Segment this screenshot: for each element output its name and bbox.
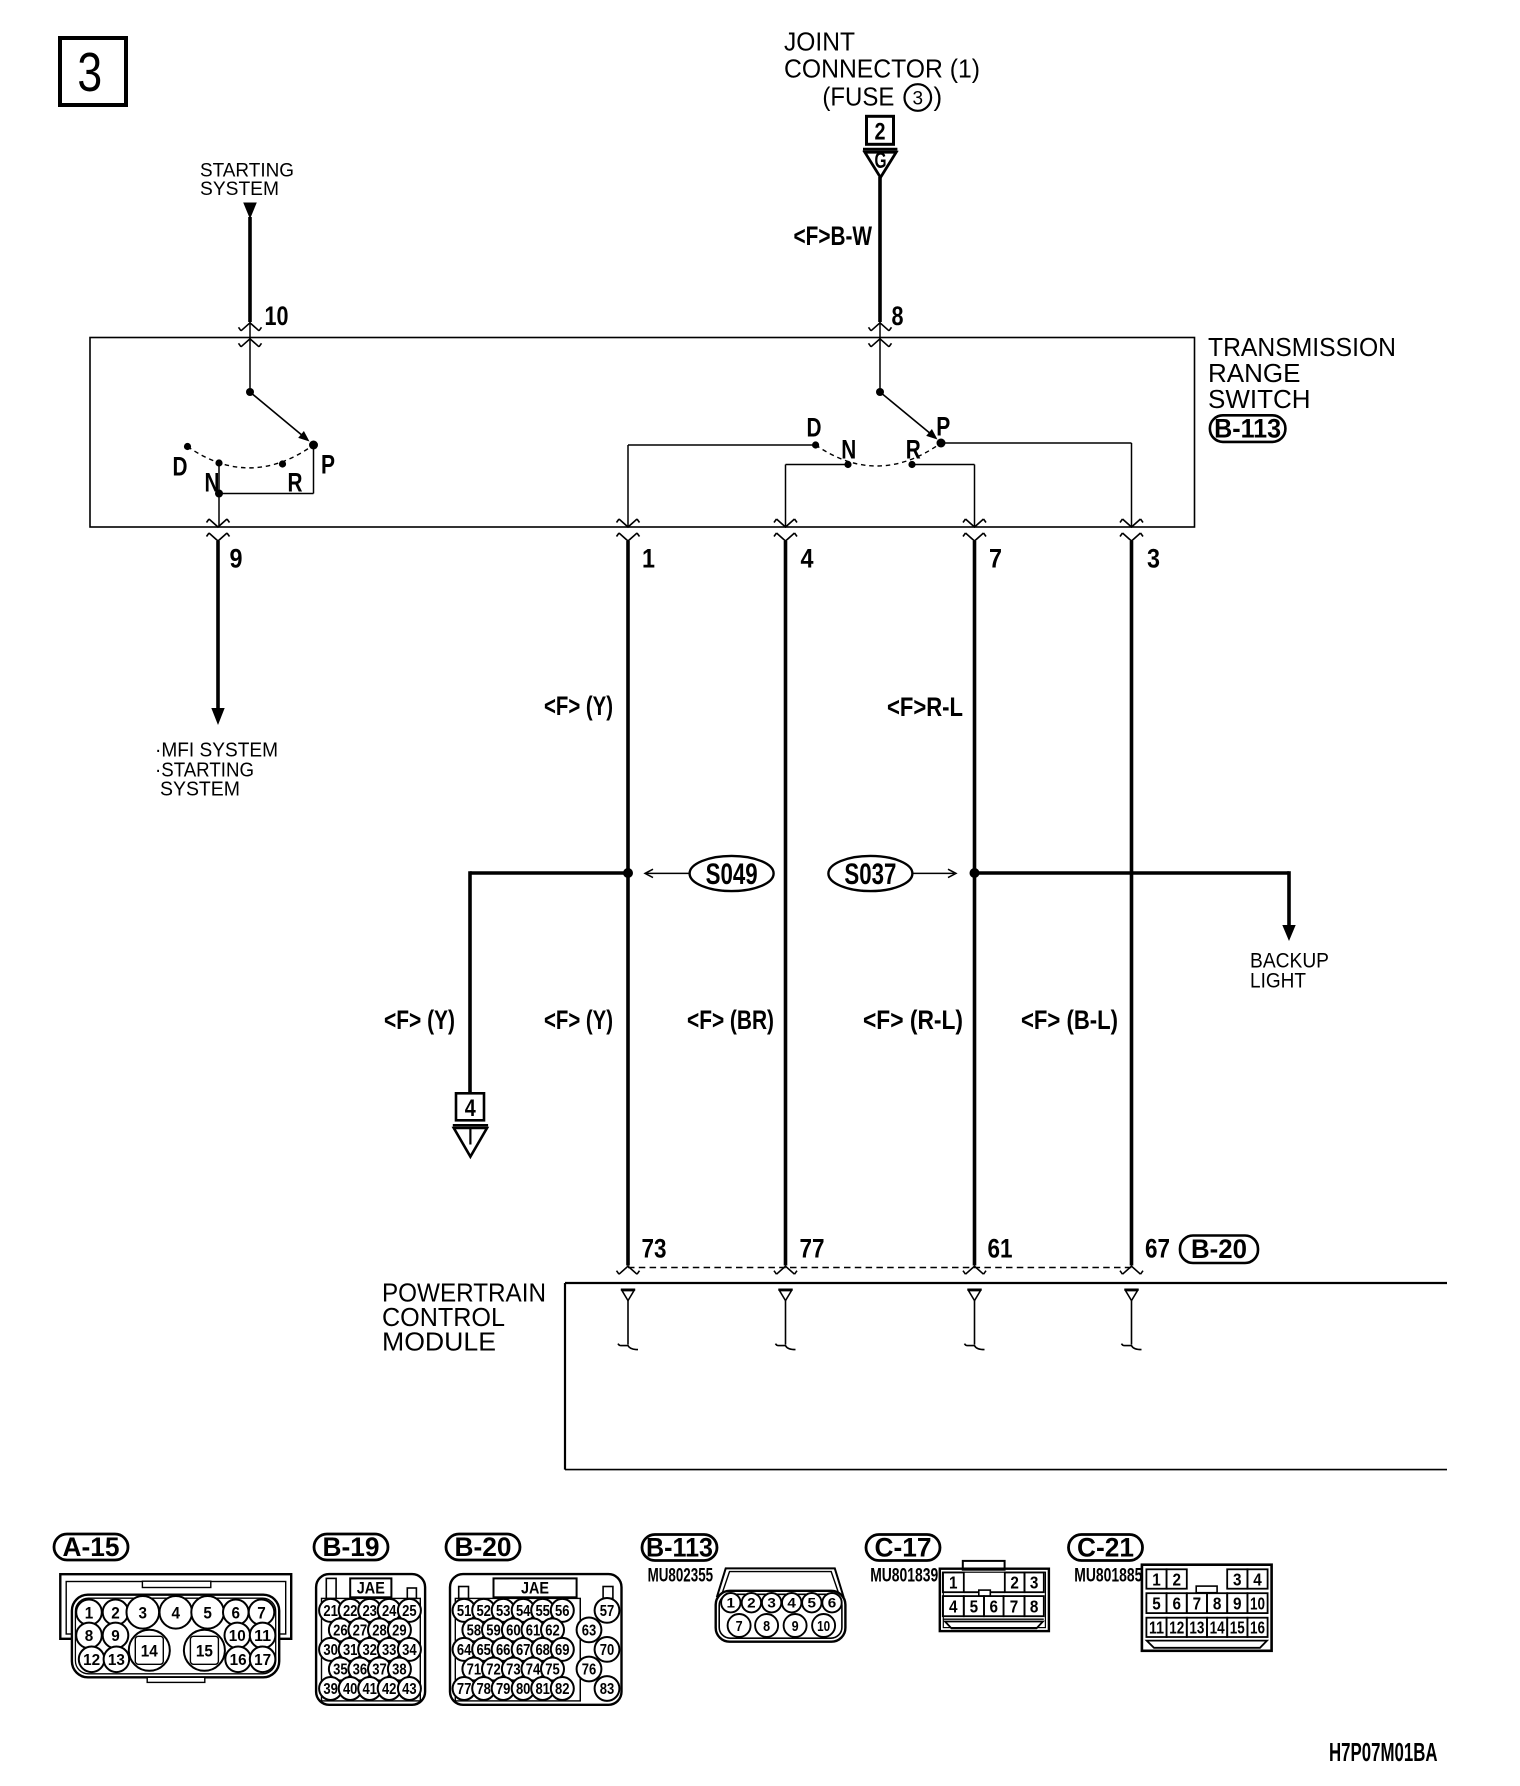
svg-text:JAE: JAE — [357, 1579, 385, 1598]
svg-text:57: 57 — [600, 1603, 615, 1620]
svg-text:8: 8 — [892, 301, 904, 331]
svg-text:54: 54 — [516, 1603, 531, 1620]
svg-text:3: 3 — [767, 1595, 776, 1611]
svg-text:6: 6 — [1172, 1594, 1181, 1614]
svg-text:MU801885: MU801885 — [1074, 1566, 1142, 1587]
svg-text:<F>R-L: <F>R-L — [887, 692, 963, 722]
svg-text:4: 4 — [787, 1595, 796, 1611]
svg-text:10: 10 — [229, 1628, 246, 1645]
svg-text:80: 80 — [516, 1681, 531, 1698]
svg-text:B-19: B-19 — [323, 1532, 380, 1562]
svg-text:R: R — [906, 435, 921, 465]
svg-text:<F> (BR): <F> (BR) — [687, 1005, 774, 1035]
svg-text:81: 81 — [535, 1681, 550, 1698]
svg-text:16: 16 — [1250, 1618, 1265, 1638]
svg-text:1: 1 — [642, 544, 655, 574]
svg-text:9: 9 — [1233, 1594, 1242, 1614]
svg-text:72: 72 — [486, 1662, 501, 1679]
svg-text:C-21: C-21 — [1077, 1533, 1134, 1563]
svg-text:16: 16 — [230, 1652, 247, 1669]
svg-text:71: 71 — [467, 1662, 482, 1679]
svg-text:SWITCH: SWITCH — [1208, 384, 1311, 414]
svg-text:6: 6 — [232, 1603, 241, 1622]
svg-text:27: 27 — [353, 1622, 368, 1639]
svg-text:75: 75 — [545, 1662, 560, 1679]
svg-text:65: 65 — [476, 1642, 491, 1659]
svg-text:3: 3 — [1233, 1569, 1242, 1589]
svg-text:13: 13 — [1189, 1618, 1204, 1638]
svg-text:C-17: C-17 — [875, 1533, 932, 1563]
svg-text:<F> (Y): <F> (Y) — [384, 1005, 455, 1035]
svg-text:7: 7 — [989, 544, 1002, 574]
svg-text:SYSTEM: SYSTEM — [200, 179, 279, 200]
svg-text:9: 9 — [111, 1628, 120, 1645]
svg-text:B-20: B-20 — [455, 1532, 512, 1562]
svg-text:G: G — [875, 147, 887, 173]
svg-text:76: 76 — [582, 1662, 597, 1679]
svg-text:4: 4 — [1253, 1569, 1262, 1589]
svg-text:B-20: B-20 — [1191, 1234, 1247, 1264]
svg-text:CONNECTOR (1): CONNECTOR (1) — [784, 54, 980, 84]
svg-text:59: 59 — [486, 1622, 501, 1639]
svg-text:55: 55 — [535, 1603, 550, 1620]
svg-text:12: 12 — [1169, 1618, 1184, 1638]
svg-text:8: 8 — [763, 1618, 770, 1635]
svg-text:B-113: B-113 — [646, 1533, 713, 1563]
svg-text:30: 30 — [323, 1642, 338, 1659]
svg-text:1: 1 — [85, 1603, 94, 1622]
svg-text:A-15: A-15 — [63, 1532, 120, 1562]
svg-text:43: 43 — [402, 1681, 417, 1698]
svg-text:77: 77 — [457, 1681, 472, 1698]
svg-text:14: 14 — [141, 1641, 158, 1660]
svg-text:1: 1 — [949, 1573, 958, 1593]
svg-text:8: 8 — [1030, 1597, 1039, 1617]
svg-text:D: D — [807, 413, 822, 443]
svg-text:S049: S049 — [706, 858, 758, 891]
svg-text:42: 42 — [382, 1681, 397, 1698]
svg-text:5: 5 — [808, 1595, 817, 1611]
svg-text:77: 77 — [800, 1234, 825, 1264]
svg-text:53: 53 — [496, 1603, 511, 1620]
svg-text:67: 67 — [516, 1642, 531, 1659]
svg-text:12: 12 — [83, 1652, 100, 1669]
svg-text:MU801839: MU801839 — [870, 1566, 938, 1587]
svg-text:21: 21 — [323, 1603, 338, 1620]
svg-text:69: 69 — [555, 1642, 570, 1659]
svg-text:D: D — [173, 452, 188, 482]
svg-text:79: 79 — [496, 1681, 511, 1698]
svg-text:56: 56 — [555, 1603, 570, 1620]
svg-text:H7P07M01BA: H7P07M01BA — [1329, 1737, 1438, 1767]
svg-text:10: 10 — [265, 301, 289, 331]
svg-text:70: 70 — [600, 1642, 615, 1659]
svg-text:33: 33 — [382, 1642, 397, 1659]
svg-text:): ) — [934, 81, 943, 111]
svg-text:64: 64 — [457, 1642, 472, 1659]
svg-text:73: 73 — [642, 1234, 667, 1264]
svg-text:2: 2 — [111, 1603, 120, 1622]
svg-text:3: 3 — [913, 88, 924, 109]
svg-text:7: 7 — [257, 1603, 266, 1622]
svg-text:4: 4 — [465, 1095, 476, 1122]
svg-text:82: 82 — [555, 1681, 570, 1698]
svg-text:SYSTEM: SYSTEM — [160, 779, 240, 801]
svg-text:23: 23 — [362, 1603, 377, 1620]
svg-text:22: 22 — [343, 1603, 358, 1620]
svg-text:4: 4 — [801, 544, 814, 574]
svg-text:74: 74 — [526, 1662, 541, 1679]
svg-text:S037: S037 — [844, 858, 896, 891]
svg-text:36: 36 — [353, 1662, 368, 1679]
svg-text:17: 17 — [254, 1652, 271, 1669]
svg-text:2: 2 — [1010, 1573, 1019, 1593]
svg-text:6: 6 — [990, 1597, 999, 1617]
svg-text:66: 66 — [496, 1642, 511, 1659]
svg-text:67: 67 — [1145, 1234, 1170, 1264]
svg-text:63: 63 — [582, 1622, 597, 1639]
svg-text:61: 61 — [988, 1234, 1013, 1264]
svg-text:·MFI SYSTEM: ·MFI SYSTEM — [155, 740, 278, 762]
svg-text:9: 9 — [792, 1618, 799, 1635]
svg-text:35: 35 — [333, 1662, 348, 1679]
svg-text:1: 1 — [1152, 1569, 1161, 1589]
svg-text:(FUSE: (FUSE — [822, 81, 894, 111]
svg-text:15: 15 — [1230, 1618, 1245, 1638]
svg-text:25: 25 — [402, 1603, 417, 1620]
svg-text:P: P — [321, 450, 335, 480]
svg-text:14: 14 — [1210, 1618, 1225, 1638]
svg-text:3: 3 — [1030, 1573, 1039, 1593]
svg-text:4: 4 — [172, 1603, 181, 1622]
svg-text:7: 7 — [1193, 1594, 1202, 1614]
svg-text:9: 9 — [230, 544, 243, 574]
svg-text:11: 11 — [254, 1628, 271, 1645]
svg-text:5: 5 — [970, 1597, 979, 1617]
svg-text:MU802355: MU802355 — [648, 1566, 714, 1587]
svg-text:51: 51 — [457, 1603, 472, 1620]
svg-text:39: 39 — [323, 1681, 338, 1698]
svg-text:3: 3 — [77, 42, 102, 104]
svg-text:52: 52 — [476, 1603, 491, 1620]
svg-text:11: 11 — [1149, 1618, 1164, 1638]
svg-text:1: 1 — [727, 1595, 736, 1611]
svg-text:<F> (Y): <F> (Y) — [544, 1005, 613, 1035]
svg-text:29: 29 — [392, 1622, 407, 1639]
svg-text:3: 3 — [139, 1603, 148, 1622]
svg-text:6: 6 — [828, 1595, 837, 1611]
svg-text:61: 61 — [526, 1622, 541, 1639]
svg-text:<F> (Y): <F> (Y) — [544, 691, 613, 721]
svg-text:2: 2 — [1172, 1569, 1181, 1589]
svg-text:37: 37 — [372, 1662, 387, 1679]
svg-text:40: 40 — [343, 1681, 358, 1698]
svg-text:LIGHT: LIGHT — [1250, 970, 1306, 993]
svg-text:60: 60 — [506, 1622, 521, 1639]
svg-text:MODULE: MODULE — [382, 1327, 496, 1357]
svg-text:JOINT: JOINT — [784, 27, 855, 57]
svg-text:32: 32 — [362, 1642, 377, 1659]
svg-text:P: P — [936, 412, 950, 442]
svg-text:10: 10 — [817, 1618, 830, 1635]
svg-text:8: 8 — [1213, 1594, 1222, 1614]
svg-text:5: 5 — [1152, 1594, 1161, 1614]
svg-text:<F>B-W: <F>B-W — [794, 221, 873, 251]
svg-text:JAE: JAE — [521, 1579, 549, 1598]
svg-text:62: 62 — [545, 1622, 560, 1639]
svg-text:10: 10 — [1250, 1594, 1265, 1614]
svg-text:13: 13 — [108, 1652, 125, 1669]
svg-text:58: 58 — [467, 1622, 482, 1639]
svg-text:28: 28 — [372, 1622, 387, 1639]
svg-text:4: 4 — [949, 1597, 958, 1617]
svg-text:7: 7 — [736, 1618, 743, 1635]
svg-text:8: 8 — [85, 1628, 94, 1645]
svg-text:2: 2 — [875, 119, 886, 146]
svg-text:73: 73 — [506, 1662, 521, 1679]
svg-text:26: 26 — [333, 1622, 348, 1639]
svg-text:B-113: B-113 — [1214, 413, 1281, 443]
svg-text:<F> (R-L): <F> (R-L) — [863, 1005, 963, 1035]
svg-text:38: 38 — [392, 1662, 407, 1679]
svg-text:2: 2 — [747, 1595, 756, 1611]
svg-text:41: 41 — [362, 1681, 377, 1698]
svg-text:78: 78 — [476, 1681, 491, 1698]
svg-text:34: 34 — [402, 1642, 417, 1659]
svg-text:15: 15 — [196, 1641, 213, 1660]
svg-text:5: 5 — [203, 1603, 212, 1622]
svg-text:24: 24 — [382, 1603, 397, 1620]
svg-text:68: 68 — [535, 1642, 550, 1659]
svg-text:<F> (B-L): <F> (B-L) — [1021, 1005, 1118, 1035]
svg-text:83: 83 — [600, 1681, 615, 1698]
svg-text:N: N — [841, 435, 856, 465]
svg-text:3: 3 — [1147, 544, 1160, 574]
svg-text:31: 31 — [343, 1642, 358, 1659]
svg-text:7: 7 — [1010, 1597, 1019, 1617]
